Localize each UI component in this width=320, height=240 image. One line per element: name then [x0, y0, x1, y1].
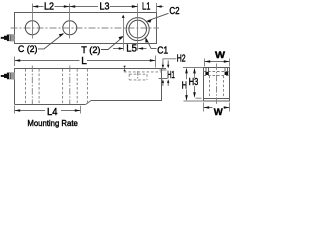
leader C (2) [38, 34, 63, 49]
top view connector pin [1, 37, 4, 39]
dimension L2 arrows [33, 5, 70, 8]
end view cavity dashed band top [204, 71, 230, 73]
top view body outline [15, 13, 157, 44]
right edge extension line up [156, 3, 158, 13]
hole2 centerline [69, 66, 71, 105]
svg-text:L2: L2 [44, 1, 54, 12]
side view connector ring small [4, 74, 7, 78]
hidden line at step [86, 69, 88, 104]
L4 arrows [15, 109, 81, 112]
inner line extension tick [196, 97, 202, 99]
dimension L3 arrows [70, 5, 138, 8]
top view connector ring mid [7, 35, 11, 42]
H1 up arrow 2 [167, 82, 169, 86]
svg-text:Mounting Rate: Mounting Rate [27, 118, 78, 128]
W top dimension line [205, 61, 230, 63]
end view centerline [216, 64, 218, 105]
W top extension lines [205, 59, 230, 67]
H2 label shelf leader [163, 59, 177, 62]
top edge extension to the left [183, 67, 204, 69]
H2 down arrow 1 [162, 62, 164, 66]
hidden feature vertical line x=123 [123, 16, 125, 51]
plate thickness mini dimension lower arrow [123, 69, 125, 71]
dimension L arrows [15, 59, 156, 62]
end view bolt shank lines [206, 68, 228, 72]
leader T (2) [101, 37, 123, 49]
L extension line left [14, 57, 16, 67]
big hole inner circle [129, 20, 147, 38]
svg-text:L1: L1 [142, 1, 151, 12]
top view connector ring small [4, 36, 7, 40]
W top arrows [205, 60, 230, 63]
H3 dimension line and arrows [194, 69, 196, 95]
side view outline [15, 69, 162, 105]
svg-text:C (2): C (2) [18, 44, 37, 54]
svg-text:H: H [182, 80, 187, 91]
leader C1 [146, 39, 156, 49]
plate thickness mini dimension upper arrow [123, 66, 125, 68]
end view inner bottom line [204, 98, 230, 100]
horizontal centerline [11, 27, 160, 29]
end view hidden vertical right [223, 76, 225, 99]
svg-text:W: W [214, 107, 223, 118]
small up arrow at top edge on x=123 [122, 15, 125, 18]
svg-text:C1: C1 [157, 46, 168, 57]
hole C circle 1 centerline vertical [32, 4, 34, 39]
H1 up arrow 1 [162, 82, 164, 86]
svg-text:C2: C2 [169, 6, 180, 17]
L4 dimension line [15, 110, 81, 112]
side view connector pin [1, 75, 4, 77]
W bottom arrows [204, 106, 230, 109]
H2 down arrow 2 [167, 61, 169, 66]
hole1 centerline [31, 66, 33, 105]
W bottom extension lines [204, 103, 230, 112]
H dimension line and arrows [186, 69, 188, 100]
pocket hidden box [129, 74, 147, 80]
dimension L5 tails [113, 48, 147, 50]
dimension L5 arrows (outside pointing inward) [119, 47, 143, 50]
dimension L line [15, 60, 156, 62]
hole1 hidden edge left [25, 69, 27, 104]
W bottom dimension line [204, 107, 230, 109]
tick at y=69 [162, 68, 167, 70]
hole2 hidden edge left [62, 69, 64, 104]
svg-text:H1: H1 [167, 70, 175, 81]
hole C circle 2 [63, 21, 77, 35]
L extension line right [155, 56, 157, 68]
hole C circle 2 centerline vertical [69, 4, 71, 39]
dimension L1 tail right [157, 6, 164, 8]
bottom edge extension to the left [184, 100, 204, 102]
svg-text:H3: H3 [189, 77, 199, 88]
side view connector body [10, 72, 14, 79]
svg-text:L: L [81, 56, 87, 67]
L4 extension right [80, 106, 82, 114]
end view hidden vertical left [209, 76, 211, 99]
end view cavity dashed band bottom [204, 75, 230, 77]
end view outline [204, 68, 230, 102]
svg-text:L4: L4 [47, 107, 58, 118]
svg-text:T (2): T (2) [81, 45, 100, 55]
big hole outer circle [126, 18, 149, 41]
svg-text:W: W [215, 50, 225, 61]
end view bolt block right [225, 72, 229, 75]
hole2 hidden edge right [76, 69, 78, 104]
dimension L2 line [33, 6, 70, 8]
cavity top hidden line [124, 71, 162, 73]
top view connector body [10, 34, 14, 41]
hole1 hidden edge right [38, 69, 40, 104]
dimension L3 line [70, 6, 138, 8]
side view connector ring mid [7, 73, 11, 80]
hole C circle 1 [25, 21, 39, 35]
end view bolt block left [205, 72, 208, 75]
leader C2 [148, 13, 169, 20]
L4 extension left [14, 106, 16, 114]
big hole centerline in side view [137, 71, 139, 81]
svg-text:H2: H2 [177, 54, 186, 65]
tick at y=78.6 [159, 78, 168, 80]
svg-text:L5: L5 [126, 43, 137, 54]
svg-text:L3: L3 [100, 1, 110, 12]
dimension L1 arrows (outside, pointing inward) [132, 5, 161, 8]
big hole centerline vertical [137, 4, 139, 51]
